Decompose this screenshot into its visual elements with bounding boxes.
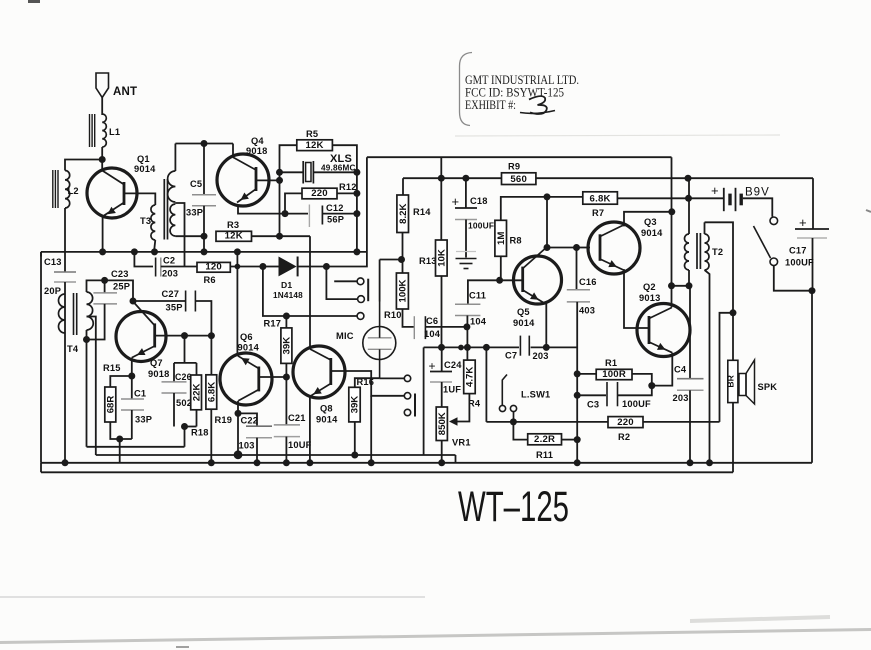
transistor Q3 9014 bbox=[588, 217, 663, 274]
mic jack switch bar bbox=[414, 394, 416, 417]
capacitor C17 100UF bbox=[785, 178, 829, 291]
svg-text:VR1: VR1 bbox=[452, 438, 471, 448]
microphone MIC bbox=[336, 302, 396, 379]
wire bottom ground bus bbox=[41, 462, 812, 464]
node R16 bottom on audio line bbox=[351, 452, 358, 459]
wire node to L2 top bbox=[65, 160, 102, 171]
node Q5 base R8 bbox=[496, 277, 503, 284]
node T4 bottom on bus bbox=[62, 459, 69, 466]
resistor R13 10K bbox=[419, 178, 448, 347]
svg-text:T2: T2 bbox=[712, 247, 723, 257]
svg-text:39K: 39K bbox=[350, 396, 361, 414]
svg-text:C4: C4 bbox=[674, 365, 687, 375]
svg-text:9014: 9014 bbox=[134, 164, 156, 174]
wire C7 line bbox=[424, 346, 578, 348]
resistor R19 6.8K bbox=[206, 336, 232, 463]
node Q2 emitter junction bbox=[648, 382, 655, 389]
svg-text:10K: 10K bbox=[437, 249, 448, 267]
wire Q3 base line bbox=[547, 247, 590, 249]
capacitor C6 104 bbox=[414, 316, 467, 339]
resistor R18 22K bbox=[185, 375, 209, 438]
node Q6 emitter column on bus bbox=[234, 248, 241, 255]
svg-text:2.2R: 2.2R bbox=[534, 434, 555, 445]
svg-text:Q4: Q4 bbox=[251, 136, 264, 146]
svg-text:WT–125: WT–125 bbox=[458, 483, 569, 531]
svg-text:R7: R7 bbox=[592, 208, 604, 218]
power switch SW bbox=[754, 217, 778, 266]
title WT-125 bbox=[458, 483, 569, 531]
wire Q7 base line bbox=[155, 335, 212, 337]
svg-text:850K: 850K bbox=[437, 412, 448, 435]
wire Q5 collector bbox=[546, 197, 548, 248]
svg-text:103: 103 bbox=[239, 441, 255, 451]
svg-text:ANT: ANT bbox=[113, 86, 137, 98]
wire mic line to R10 bbox=[380, 260, 402, 302]
svg-text:4.7K: 4.7K bbox=[465, 367, 476, 387]
node T2 primary bottom link bbox=[668, 282, 675, 289]
svg-text:C24: C24 bbox=[444, 360, 462, 370]
svg-text:C27: C27 bbox=[162, 289, 180, 299]
transistor Q2 9013 bbox=[637, 282, 690, 357]
svg-text:20P: 20P bbox=[44, 286, 61, 296]
jack pad J1 upper bbox=[334, 278, 364, 285]
svg-text:L.SW1: L.SW1 bbox=[521, 390, 550, 400]
diode D1 1N4148 bbox=[263, 257, 327, 301]
wire Q6 collector to audio line bbox=[237, 413, 239, 454]
node switch column top bbox=[483, 344, 490, 351]
node R13 bottom on C7 line bbox=[438, 344, 445, 351]
svg-text:502: 502 bbox=[176, 398, 192, 408]
transformer T2 bbox=[685, 198, 724, 270]
transformer T4 bbox=[59, 292, 94, 354]
wire Q6 collector down bbox=[237, 401, 239, 414]
wire R15 C1 junction to bus bbox=[119, 439, 121, 463]
node Q7 collector bbox=[130, 298, 137, 305]
svg-text:9013: 9013 bbox=[639, 293, 660, 303]
capacitor C11 104 bbox=[455, 280, 500, 327]
node Q6 collector on audio line bbox=[234, 450, 243, 459]
svg-text:EXHIBIT #:: EXHIBIT #: bbox=[465, 98, 516, 112]
svg-text:Q6: Q6 bbox=[240, 332, 253, 342]
svg-text:Q1: Q1 bbox=[137, 154, 150, 164]
node Q5 collector top bbox=[544, 193, 551, 200]
wire switch column bbox=[485, 347, 487, 422]
wire Q3 emitter to Q2 base bbox=[624, 270, 650, 328]
svg-text:100R: 100R bbox=[602, 369, 626, 380]
node R2 line switch branch bbox=[510, 418, 517, 425]
transistor Q1 9014 bbox=[87, 154, 156, 218]
svg-text:104: 104 bbox=[424, 329, 441, 339]
svg-text:203: 203 bbox=[673, 393, 689, 403]
svg-text:100UF: 100UF bbox=[622, 399, 651, 409]
node 2.2R right end bbox=[574, 436, 581, 443]
capacitor C26 502 bbox=[162, 372, 193, 427]
svg-text:C16: C16 bbox=[579, 277, 597, 287]
ground symbol below C18 bbox=[456, 259, 477, 269]
svg-text:D1: D1 bbox=[281, 280, 292, 290]
svg-text:C12: C12 bbox=[326, 203, 344, 213]
wire switch to C17 line bbox=[774, 266, 812, 291]
node R14 R10 mic junction bbox=[398, 256, 405, 263]
transformer T3 bbox=[140, 144, 175, 253]
node R15 C1 bottom bbox=[116, 436, 123, 443]
node C5 column on bus bbox=[201, 248, 208, 255]
jack pad J2 middle bbox=[326, 267, 364, 303]
wire C2 branch bbox=[134, 252, 153, 267]
node on C7 line bbox=[458, 345, 464, 351]
wire mic bottom to pad bbox=[380, 377, 404, 379]
resistor R2 220 bbox=[486, 417, 719, 442]
wire T4 top line bbox=[87, 280, 134, 301]
wire mic feedback line bbox=[87, 446, 185, 448]
node T2 secondary bottom on bus bbox=[706, 459, 713, 466]
resistor R1 100R bbox=[577, 358, 652, 386]
wire node to Q1 collector bbox=[101, 160, 103, 171]
wire T3 secondary tap bbox=[175, 203, 184, 267]
svg-text:BR: BR bbox=[726, 374, 736, 387]
svg-text:35P: 35P bbox=[166, 303, 183, 313]
svg-text:R1: R1 bbox=[605, 358, 617, 368]
svg-text:9014: 9014 bbox=[316, 415, 338, 425]
capacitor C16 403 bbox=[567, 248, 597, 374]
node Q7 base R19 branch bbox=[208, 332, 215, 339]
node C3 column on bus bbox=[574, 459, 581, 466]
wire C3 column to R11 bbox=[576, 395, 578, 439]
capacitor C18 100UF bbox=[452, 175, 495, 258]
svg-text:C23: C23 bbox=[111, 269, 129, 279]
svg-text:C13: C13 bbox=[44, 257, 62, 267]
svg-text:56P: 56P bbox=[327, 215, 344, 225]
svg-text:R13: R13 bbox=[419, 256, 437, 266]
node R1 left C16 bottom bbox=[574, 370, 581, 377]
svg-text:T4: T4 bbox=[67, 344, 79, 354]
svg-text:L1: L1 bbox=[109, 127, 120, 137]
svg-text:+: + bbox=[452, 194, 460, 209]
node Q8 emitter on bus bbox=[306, 459, 313, 466]
wire Q5 base line bbox=[500, 279, 523, 281]
wire Q5 emitter down bbox=[545, 304, 547, 348]
wire antenna to L1 bbox=[101, 98, 103, 116]
node R12 right bbox=[353, 190, 360, 197]
capacitor C24 1UF bbox=[429, 347, 463, 407]
resistor R10 100K bbox=[384, 260, 414, 327]
transistor Q4 9018 bbox=[217, 136, 269, 206]
svg-text:Q2: Q2 bbox=[643, 282, 656, 292]
svg-text:C1: C1 bbox=[134, 389, 146, 399]
wire L2 to C13 bbox=[64, 208, 66, 272]
wire R8 line to R7 bbox=[547, 196, 583, 198]
svg-text:C11: C11 bbox=[469, 291, 486, 301]
node R3 left Q4 base column bbox=[276, 233, 283, 240]
svg-text:C22: C22 bbox=[241, 416, 259, 426]
wire top ground bus bbox=[41, 251, 367, 253]
svg-text:R5: R5 bbox=[306, 129, 318, 139]
speaker SPK bbox=[739, 360, 777, 404]
wire Q8 emitter to bus bbox=[309, 396, 311, 463]
crystal XLS 49.86MC bbox=[280, 153, 357, 184]
wire Q6 emitter column bbox=[236, 252, 238, 354]
node crystal line left bbox=[276, 169, 283, 176]
node C12 right bbox=[353, 210, 360, 217]
svg-text:L2: L2 bbox=[68, 186, 79, 196]
transistor Q7 9018 bbox=[116, 302, 169, 380]
wire BR to speaker driver bbox=[732, 313, 734, 361]
node R13 top bbox=[438, 175, 445, 182]
battery B9V bbox=[711, 183, 770, 211]
capacitor C13 20P bbox=[44, 257, 76, 296]
transistor Q5 9014 bbox=[513, 248, 562, 329]
resistor R9 560 bbox=[502, 162, 536, 185]
wire T2 secondary bottom to ground bus bbox=[705, 270, 710, 463]
node C17 bottom junction bbox=[809, 287, 816, 294]
node Q3 collector on rail drop bbox=[668, 208, 675, 215]
capacitor C27 35P bbox=[133, 289, 211, 336]
mic pad P3 bbox=[404, 409, 410, 415]
svg-text:R8: R8 bbox=[510, 236, 522, 246]
capacitor C5 33P bbox=[186, 144, 216, 237]
svg-text:R14: R14 bbox=[413, 207, 431, 217]
wire jack pad column to ground bus bbox=[370, 396, 372, 463]
svg-text:49.86MC: 49.86MC bbox=[321, 164, 356, 173]
wire T2 bottom link bbox=[672, 285, 691, 287]
node jack column on bus bbox=[368, 459, 375, 466]
resistor R6 120 bbox=[197, 262, 263, 285]
wire D1 anode to jack pad bbox=[263, 267, 287, 317]
node C11 C6 junction bbox=[463, 323, 470, 330]
svg-text:1UF: 1UF bbox=[443, 385, 461, 395]
resistor R5 12K bbox=[280, 129, 357, 252]
svg-text:MIC: MIC bbox=[336, 331, 354, 341]
jack switch bar bbox=[367, 279, 369, 302]
wire R9 feed line bbox=[403, 177, 813, 179]
svg-text:68R: 68R bbox=[106, 396, 117, 414]
svg-text:6.8K: 6.8K bbox=[590, 194, 611, 205]
node Q4 base bbox=[276, 177, 283, 184]
stamp box GMT INDUSTRIAL bbox=[460, 53, 580, 126]
svg-text:100K: 100K bbox=[398, 279, 409, 302]
node C23 top bbox=[101, 277, 108, 284]
node C22 bottom on bus bbox=[254, 459, 261, 466]
transistor Q8 9014 bbox=[293, 346, 345, 425]
svg-text:Q8: Q8 bbox=[320, 404, 333, 414]
resistor R4 4.7K bbox=[457, 347, 481, 421]
potentiometer VR1 850K bbox=[436, 407, 470, 463]
wire second bottom line bbox=[41, 463, 733, 473]
svg-text:1M: 1M bbox=[496, 232, 507, 245]
svg-text:9014: 9014 bbox=[513, 318, 535, 328]
node C4 bottom on bus bbox=[687, 459, 694, 466]
svg-text:R19: R19 bbox=[215, 415, 233, 425]
wire T2 secondary top to BR bbox=[705, 222, 734, 312]
node C2 branch on bus bbox=[131, 248, 138, 255]
svg-text:9018: 9018 bbox=[246, 146, 267, 156]
wire left border bbox=[40, 252, 42, 463]
wire B+ rail bbox=[367, 156, 672, 158]
svg-text:R6: R6 bbox=[204, 275, 216, 285]
wire battery to power switch bbox=[743, 198, 772, 217]
wire T4 bottom to mic line bbox=[86, 340, 88, 447]
node R4 top on C7 line bbox=[464, 344, 471, 351]
svg-text:R18: R18 bbox=[191, 428, 209, 438]
jack pad J3 lower bbox=[357, 313, 364, 320]
node Q7 emitter bbox=[128, 373, 135, 380]
node antenna junction bbox=[99, 156, 106, 163]
svg-text:9014: 9014 bbox=[238, 343, 260, 353]
wire T4 left coil to bus bbox=[64, 333, 66, 463]
node T2 top on R9 line bbox=[685, 175, 692, 182]
svg-text:Q3: Q3 bbox=[644, 217, 657, 227]
wire Q3 collector to rail drop bbox=[623, 212, 672, 226]
wire T2 primary bottom bbox=[688, 270, 690, 286]
svg-text:+: + bbox=[711, 183, 719, 198]
svg-text:C17: C17 bbox=[789, 246, 807, 256]
wire C6 node down to R4 bbox=[466, 327, 468, 348]
wire C26 R18 top bbox=[174, 336, 197, 382]
svg-text:1N4148: 1N4148 bbox=[273, 291, 303, 300]
svg-text:12K: 12K bbox=[305, 140, 323, 151]
node Q1 emitter on bus bbox=[99, 248, 106, 255]
svg-text:R2: R2 bbox=[618, 432, 630, 442]
svg-text:33P: 33P bbox=[186, 208, 203, 218]
svg-text:C2: C2 bbox=[163, 256, 175, 266]
node VR1 bottom on bus bbox=[438, 459, 445, 466]
svg-text:203: 203 bbox=[162, 269, 178, 279]
wire C3 column to ground bus bbox=[576, 440, 578, 463]
node Q6 collector junction bbox=[235, 410, 242, 417]
handwritten exhibit number 3 bbox=[520, 96, 555, 114]
node R6 right Q6 emitter column bbox=[235, 264, 241, 270]
svg-text:SPK: SPK bbox=[758, 382, 778, 392]
svg-text:10UF: 10UF bbox=[288, 440, 312, 450]
node C26 R18 bottom bbox=[181, 423, 188, 430]
svg-text:Q7: Q7 bbox=[150, 358, 163, 368]
svg-text:22K: 22K bbox=[191, 384, 202, 402]
node C5 top bbox=[201, 140, 208, 147]
node Q6 base R17 bbox=[283, 374, 290, 381]
svg-text:220: 220 bbox=[311, 188, 328, 199]
node R19 bottom on bus bbox=[208, 459, 215, 466]
svg-text:R11: R11 bbox=[536, 450, 553, 460]
wire Q6 base line bbox=[259, 376, 287, 378]
svg-text:+: + bbox=[799, 215, 807, 230]
wire C17 to ground bus bbox=[811, 291, 813, 463]
capacitor C7 203 bbox=[505, 336, 549, 361]
resistor R16 39K bbox=[349, 377, 380, 455]
node Q5 emitter on C7 line bbox=[543, 344, 550, 351]
wire Q4 collector bbox=[232, 144, 234, 158]
node Q7 base R18 branch bbox=[181, 332, 188, 339]
svg-text:100UF: 100UF bbox=[468, 221, 494, 231]
svg-text:25P: 25P bbox=[113, 282, 130, 292]
svg-text:6.8K: 6.8K bbox=[207, 382, 218, 402]
wire R17 column down bbox=[285, 377, 287, 425]
node Q4 emitter C12 line bbox=[282, 210, 289, 217]
resistor R14 8.2K bbox=[397, 178, 431, 259]
node C16 top bbox=[573, 244, 580, 251]
inductor L1 bbox=[90, 114, 121, 147]
wire C4 column bbox=[689, 286, 691, 379]
svg-text:T3: T3 bbox=[140, 216, 151, 226]
wire rail drop bbox=[671, 157, 673, 307]
svg-text:9014: 9014 bbox=[641, 228, 663, 238]
resistor R3 12K bbox=[216, 220, 310, 242]
node T4 right coil bottom bbox=[83, 336, 90, 343]
resistor R12 220 bbox=[285, 182, 357, 214]
node T3 primary on bus bbox=[151, 248, 158, 255]
mic pad P1 bbox=[404, 375, 410, 381]
wire T4 tap down bbox=[87, 317, 96, 456]
svg-text:C6: C6 bbox=[426, 316, 438, 326]
wire Q1 base to T3 bbox=[124, 193, 155, 205]
svg-text:8.2K: 8.2K bbox=[398, 204, 409, 224]
capacitor C4 203 bbox=[673, 365, 704, 463]
wire BR junction to R2 column bbox=[720, 313, 734, 422]
wire Q2 emitter bbox=[652, 353, 673, 386]
svg-text:R15: R15 bbox=[103, 363, 121, 373]
wire R7 to battery line bbox=[617, 197, 723, 199]
resistor R11 2.2R bbox=[513, 422, 577, 460]
node T2 top on battery line bbox=[685, 195, 692, 202]
svg-text:104: 104 bbox=[470, 317, 487, 327]
node C21 bottom on bus bbox=[283, 459, 290, 466]
svg-text:203: 203 bbox=[533, 351, 549, 361]
svg-text:C18: C18 bbox=[470, 196, 488, 206]
capacitor C21 10UF bbox=[274, 413, 312, 463]
capacitor C12 56P bbox=[285, 203, 357, 227]
svg-text:C5: C5 bbox=[190, 179, 202, 189]
wire Q8 base to jack pad bbox=[331, 371, 404, 396]
node C5 bottom / R3 line bbox=[201, 233, 208, 240]
capacitor C22 103 bbox=[238, 413, 272, 462]
transistor Q6 9014 bbox=[220, 332, 272, 405]
svg-text:100UF: 100UF bbox=[785, 258, 814, 268]
svg-text:403: 403 bbox=[579, 306, 595, 316]
svg-text:R3: R3 bbox=[227, 220, 239, 230]
driver BR bbox=[726, 360, 738, 402]
node R5 column to top bus bbox=[353, 248, 360, 255]
wire L1 to node bbox=[101, 147, 103, 160]
resistor R8 1M bbox=[495, 197, 547, 280]
wire C5 node to top bus bbox=[203, 236, 205, 252]
capacitor C23 25P bbox=[87, 269, 131, 340]
node T2 primary bottom bbox=[686, 282, 693, 289]
svg-text:Q5: Q5 bbox=[517, 307, 530, 317]
svg-text:R12: R12 bbox=[339, 182, 357, 192]
svg-text:R10: R10 bbox=[384, 310, 402, 320]
wire T3 top to Q4 collector bbox=[175, 143, 233, 145]
svg-text:33P: 33P bbox=[135, 415, 152, 425]
wire Q7 emitter down bbox=[131, 358, 133, 376]
wire audio line left riser bbox=[423, 347, 425, 455]
resistor R15 68R bbox=[103, 363, 132, 439]
svg-text:220: 220 bbox=[617, 417, 634, 428]
svg-text:B9V: B9V bbox=[745, 187, 770, 199]
node crystal line right bbox=[353, 169, 360, 176]
wire Q4 emitter to C12 line bbox=[238, 206, 285, 214]
wire T3 secondary bottom to R3 line bbox=[175, 235, 204, 237]
svg-text:12K: 12K bbox=[225, 231, 243, 242]
node D1 anode branch bbox=[259, 263, 266, 270]
svg-text:39K: 39K bbox=[282, 337, 293, 355]
svg-text:C21: C21 bbox=[288, 413, 306, 423]
node C3 left bbox=[574, 392, 581, 399]
resistor R7 6.8K bbox=[583, 192, 618, 218]
svg-text:C3: C3 bbox=[587, 400, 599, 410]
wire Q4 base to column bbox=[256, 179, 280, 181]
mic pad P2 bbox=[404, 393, 410, 399]
node BR top junction bbox=[730, 309, 737, 316]
capacitor C3 100UF bbox=[577, 374, 652, 410]
